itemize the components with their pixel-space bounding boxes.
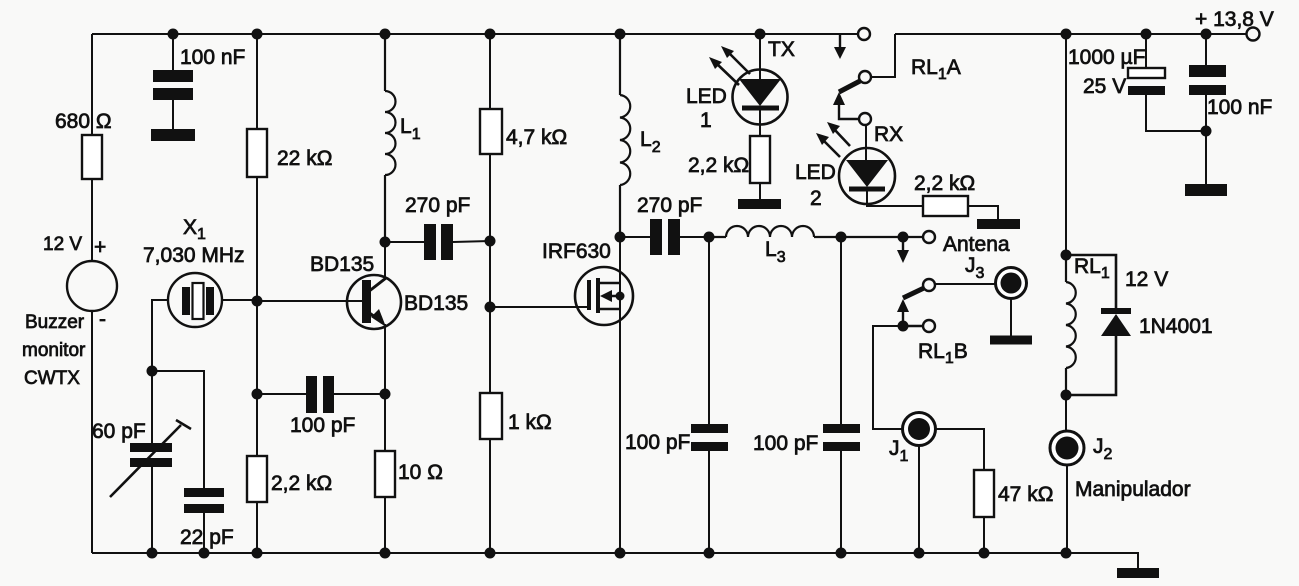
resistor 680 ohm <box>82 135 102 179</box>
wire drain/source vertical <box>619 237 621 553</box>
node mosfet source internal <box>616 292 625 301</box>
capacitor 1000 uF 25 V electrolytic <box>1128 68 1165 95</box>
svg-text:IRF630: IRF630 <box>542 240 611 263</box>
svg-text:680 Ω: 680 Ω <box>55 110 112 133</box>
wire collector to L1 node <box>384 242 386 278</box>
node 270pF-L3 <box>704 232 715 243</box>
svg-text:BD135: BD135 <box>404 292 468 315</box>
wire relay coil branch from rail <box>1065 34 1067 255</box>
node 100pF left <box>252 389 263 400</box>
svg-text:+: + <box>94 236 106 259</box>
node rail-100nF <box>168 29 179 40</box>
node bottom-47k <box>979 548 990 559</box>
wire top supply rail right section <box>895 33 1247 35</box>
connector J3 <box>996 268 1027 299</box>
capacitor 22 pF <box>184 488 224 513</box>
connector J1 <box>903 413 936 446</box>
inductor L2 <box>620 34 630 237</box>
resistor 47 kohm <box>974 470 994 517</box>
wire J1 to 47k <box>936 429 984 553</box>
node bottom-cap2 <box>836 548 847 559</box>
LED1 emission arrows <box>709 46 750 85</box>
svg-text:47 kΩ: 47 kΩ <box>998 483 1053 506</box>
svg-text:BD135: BD135 <box>310 253 374 276</box>
svg-text:60 pF: 60 pF <box>92 420 146 443</box>
capacitor 100 nF (right decoupling) <box>1189 65 1226 95</box>
svg-text:100 nF: 100 nF <box>180 46 245 69</box>
wire diode branch <box>1066 255 1116 395</box>
svg-text:12 V: 12 V <box>43 234 82 255</box>
svg-text:RL1A: RL1A <box>911 56 961 83</box>
node +13,8V terminal <box>1247 28 1260 41</box>
ground under J3 <box>990 336 1032 345</box>
wire RL1A pole to rail <box>871 34 895 77</box>
svg-text:22 kΩ: 22 kΩ <box>277 147 332 170</box>
wire LED1 cathode to resistor <box>759 110 761 199</box>
node bottom-2,2k <box>252 548 263 559</box>
svg-text:2: 2 <box>810 187 822 210</box>
node RL1 coil bottom <box>1061 390 1072 401</box>
capacitor 270 pF (output left) <box>650 219 680 255</box>
svg-text:1: 1 <box>700 109 712 132</box>
svg-text:RL1B: RL1B <box>918 340 968 367</box>
trimmer capacitor 60 pF <box>130 443 172 467</box>
ground bottom-right rail end <box>1117 568 1159 578</box>
LED 2 RX indicator <box>839 148 895 204</box>
connector J2 <box>1050 431 1084 465</box>
svg-text:Manipulador: Manipulador <box>1075 478 1191 501</box>
relay contact RL1B <box>897 279 935 332</box>
resistor 4,7 kohm <box>480 109 502 154</box>
node antenna tap <box>898 232 909 243</box>
LED 1 TX indicator <box>733 70 788 125</box>
relay coil RL1 <box>1066 255 1076 395</box>
svg-text:100 nF: 100 nF <box>1207 96 1272 119</box>
wire 270pF output leads <box>620 236 709 238</box>
resistor 2,2 kohm (LED2) <box>923 196 968 216</box>
node rail-1000uF <box>1141 29 1152 40</box>
wire 22k/2,2k divider branch <box>256 34 258 553</box>
inductor L1 <box>385 34 396 242</box>
resistor 22 kohm <box>247 129 267 177</box>
svg-text:+ 13,8 V: + 13,8 V <box>1195 8 1274 31</box>
wire left branch 680ohm/buzzer <box>91 34 93 553</box>
node bottom-1k <box>485 548 496 559</box>
svg-text:monitor: monitor <box>22 340 86 361</box>
svg-text:1N4001: 1N4001 <box>1139 315 1213 338</box>
node bottom-J1 <box>914 548 925 559</box>
wire node A to 60pF and to bottom rail <box>151 371 153 553</box>
node base <box>252 296 263 307</box>
svg-text:100 pF: 100 pF <box>625 431 690 454</box>
wire 100nF right branch <box>1205 34 1207 184</box>
wire RL1B bottom contact to J1 <box>873 326 903 429</box>
wire J3 to ground <box>1010 299 1012 336</box>
wire gate lead <box>490 306 587 308</box>
svg-text:270 pF: 270 pF <box>405 194 470 217</box>
inductor L3 <box>709 226 923 237</box>
wire 4,7k / 1k gate branch <box>489 34 491 553</box>
wire J1 to bottom rail <box>918 446 920 553</box>
svg-text:LED: LED <box>795 161 836 184</box>
diode D1 1N4001 <box>1101 311 1131 336</box>
svg-text:100 pF: 100 pF <box>753 432 818 455</box>
transistor Q1 BD135 <box>347 275 401 329</box>
ground under LED1 resistor <box>738 199 781 209</box>
wire LED2 anode from RX contact <box>865 125 867 160</box>
svg-text:10 Ω: 10 Ω <box>398 461 443 484</box>
node Antena terminal <box>923 231 935 243</box>
wire 100pF feedback leads <box>257 393 385 395</box>
wire crystal left lead down <box>152 300 168 371</box>
wire bottom ground rail <box>92 553 1138 568</box>
node 1000uF-100nF <box>1201 126 1212 137</box>
node 270pF-4,7k <box>485 236 496 247</box>
svg-text:4,7 kΩ: 4,7 kΩ <box>506 126 567 149</box>
node emitter-100pF <box>380 389 391 400</box>
node rail-L2 <box>615 29 626 40</box>
node bottom-J2 <box>1061 548 1072 559</box>
node rail-100nF right <box>1201 29 1212 40</box>
node rail-L1 <box>380 29 391 40</box>
svg-text:12 V: 12 V <box>1125 268 1168 291</box>
svg-text:1000 µF: 1000 µF <box>1068 46 1145 69</box>
node drain-L2 <box>615 232 626 243</box>
wire 100nF decoupling branch <box>172 34 174 129</box>
svg-text:1 kΩ: 1 kΩ <box>508 411 552 434</box>
node bottom-source <box>615 548 626 559</box>
transistor Q2 IRF630 MOSFET <box>575 267 633 325</box>
wire RL1B pole to J3 <box>935 283 995 285</box>
ground under LED2 resistor <box>977 219 1020 229</box>
wire LED2 cathode to resistor <box>867 191 923 206</box>
LED2 emission arrows <box>816 122 850 157</box>
capacitor 100 pF (pi filter 1) <box>691 424 728 451</box>
wire LED1 anode from rail <box>759 34 761 79</box>
resistor 10 ohm <box>375 451 395 497</box>
node collector-L1 <box>380 237 391 248</box>
wire pi-filter cap branch 2 <box>840 237 842 553</box>
resistor 2,2 kohm (LED1) <box>750 136 770 183</box>
node bottom-10ohm <box>380 548 391 559</box>
wire coil node to J2 <box>1065 395 1067 431</box>
ground under right 100 nF <box>1185 184 1227 196</box>
wire pi-filter cap branch 1 <box>708 237 710 553</box>
resistor 1 kohm <box>480 393 502 439</box>
buzzer BZ1 12V <box>67 261 117 311</box>
svg-text:2,2 kΩ: 2,2 kΩ <box>271 472 332 495</box>
node bottom-22pF <box>199 548 210 559</box>
crystal X1 7,030 MHz <box>168 273 222 327</box>
node bottom-cap1 <box>704 548 715 559</box>
node rail-22k <box>252 29 263 40</box>
wire 1000uF branch <box>1146 34 1206 131</box>
node rail-RL1 <box>1061 29 1072 40</box>
svg-text:2,2 kΩ: 2,2 kΩ <box>688 154 749 177</box>
node rail-LED1 TX <box>755 29 766 40</box>
node crystal branch <box>147 366 158 377</box>
antenna motion arrow <box>897 237 909 263</box>
svg-text:22 pF: 22 pF <box>180 526 234 549</box>
svg-text:LED: LED <box>686 85 727 108</box>
node L3-cap2 <box>836 232 847 243</box>
wire emitter down to 10 ohm <box>384 324 386 553</box>
wire 22pF branch <box>152 371 204 553</box>
node RL1B bottom <box>898 321 909 332</box>
capacitor 100 pF feedback <box>306 376 334 413</box>
wire J2 to bottom rail <box>1066 465 1068 553</box>
capacitor 100 nF (left decoupling) <box>153 70 193 100</box>
ground under 100 nF <box>151 129 195 141</box>
svg-text:7,030 MHz: 7,030 MHz <box>143 244 245 267</box>
svg-text:Antena: Antena <box>943 233 1010 256</box>
node RL1 coil top <box>1061 250 1072 261</box>
svg-text:Buzzer: Buzzer <box>25 312 85 333</box>
capacitor 270 pF (interstage left) <box>424 224 453 260</box>
svg-text:270 pF: 270 pF <box>637 194 702 217</box>
svg-text:RX: RX <box>874 123 903 146</box>
node rail-4,7k <box>485 29 496 40</box>
node gate <box>485 302 496 313</box>
trimmer arrow <box>110 420 191 497</box>
node bottom-60pF <box>147 548 158 559</box>
wire crystal to base node <box>222 300 362 301</box>
svg-text:2,2 kΩ: 2,2 kΩ <box>914 172 975 195</box>
wire top supply rail left section <box>92 33 858 35</box>
resistor 2,2 kohm (emitter divider) <box>247 456 267 502</box>
svg-text:100 pF: 100 pF <box>290 414 355 437</box>
svg-text:CWTX: CWTX <box>24 368 80 389</box>
relay contact RL1A <box>833 28 871 125</box>
svg-text:25 V: 25 V <box>1083 75 1126 98</box>
wire LED2 resistor to ground <box>968 206 998 219</box>
svg-text:-: - <box>99 308 106 331</box>
wire 270pF leads <box>385 241 490 242</box>
capacitor 100 pF (pi filter 2) <box>823 424 860 451</box>
svg-text:TX: TX <box>768 38 795 61</box>
